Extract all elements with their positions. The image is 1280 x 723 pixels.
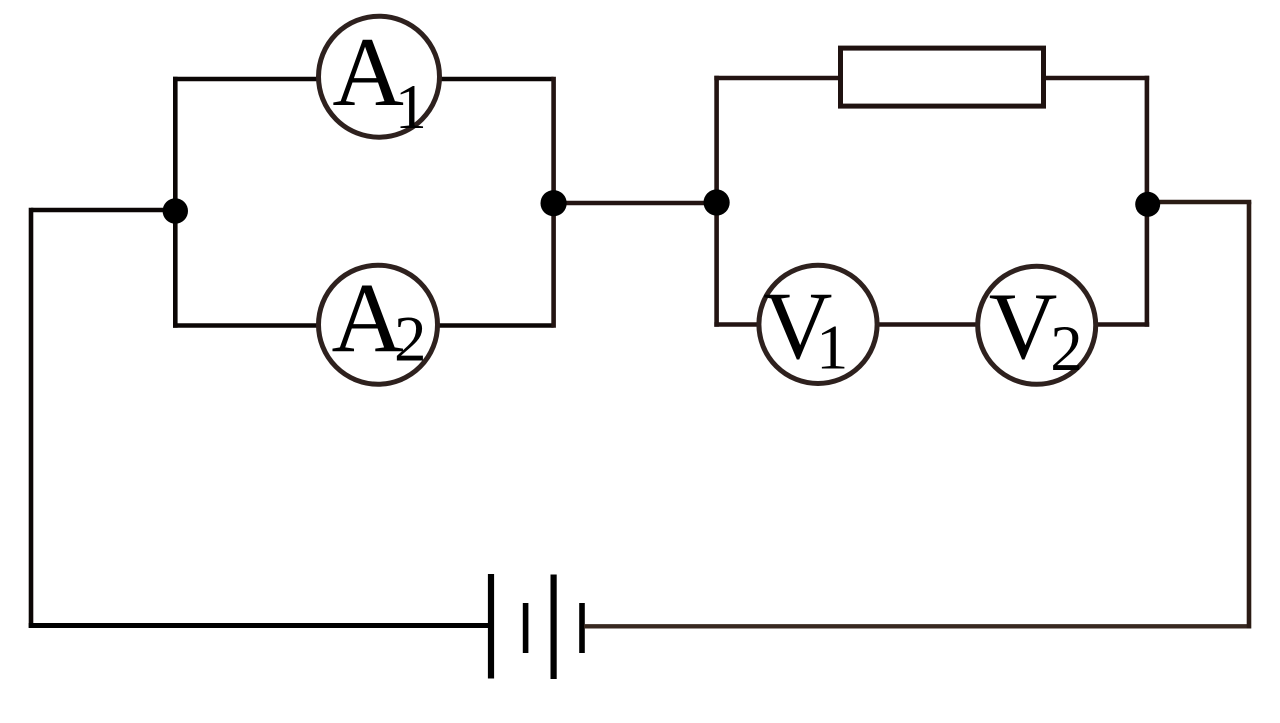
- ammeter A1: [319, 16, 440, 142]
- wire top right to right node: [1148, 200, 1251, 204]
- svg-text:A: A: [332, 262, 404, 373]
- svg-text:V: V: [989, 273, 1058, 379]
- wire top rail of ammeter block: [173, 77, 554, 82]
- svg-text:2: 2: [394, 303, 427, 375]
- svg-text:2: 2: [1050, 313, 1083, 385]
- battery B1 plate long right: [550, 575, 556, 680]
- wire bottom left to battery: [29, 623, 490, 628]
- wire bottom rail of voltmeter block: [714, 322, 1149, 327]
- wire left edge vertical: [29, 208, 34, 628]
- resistor R: [841, 48, 1044, 106]
- wire right vertical of voltmeter block: [1145, 76, 1150, 327]
- wire right edge vertical: [1247, 202, 1252, 629]
- svg-text:1: 1: [395, 71, 427, 142]
- node junction middle right: [704, 189, 730, 215]
- svg-text:A: A: [332, 18, 404, 127]
- ammeter A2: [319, 262, 438, 384]
- node junction middle left: [541, 190, 567, 216]
- voltmeter V1: [759, 265, 877, 383]
- wire left vertical of ammeter block: [173, 77, 178, 328]
- svg-text:1: 1: [816, 311, 848, 382]
- battery B1 plate long left: [488, 574, 494, 679]
- wire top rail of voltmeter block: [714, 76, 1149, 81]
- voltmeter V2: [978, 266, 1096, 385]
- node junction right: [1135, 192, 1160, 217]
- node junction left: [163, 198, 188, 223]
- battery B1 plate short: [523, 603, 529, 653]
- wire bottom right from battery to right edge: [584, 624, 1248, 628]
- wire middle connecting the two blocks: [554, 201, 717, 205]
- wire bottom rail of ammeter block: [173, 323, 554, 328]
- wire left vertical of voltmeter block: [714, 76, 719, 327]
- wire from left node to left edge: [31, 208, 176, 213]
- wire right vertical of ammeter block: [551, 77, 556, 328]
- battery B1 plate short right: [579, 603, 585, 653]
